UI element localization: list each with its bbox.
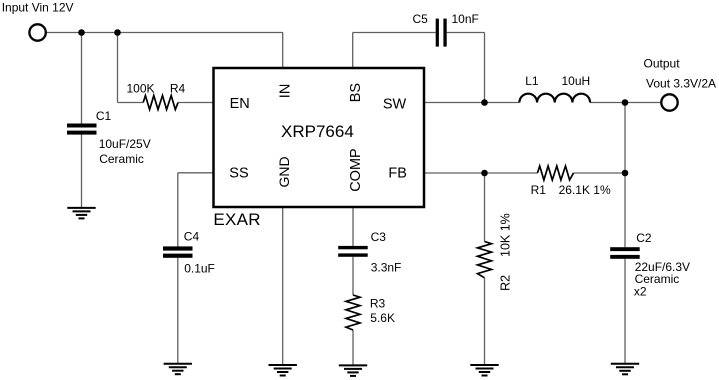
svg-text:100K: 100K — [127, 82, 155, 96]
svg-text:R1: R1 — [531, 183, 547, 197]
svg-text:C3: C3 — [371, 230, 387, 244]
ground R3 — [339, 365, 367, 376]
ground C1 — [67, 208, 95, 219]
wire C1 branch top — [81, 33, 83, 124]
op-amp U1 XRP7664 box — [214, 68, 425, 207]
resistor R1 — [538, 166, 574, 180]
svg-text:5.6K: 5.6K — [370, 311, 395, 325]
capacitor C3 — [338, 246, 368, 257]
input terminal — [29, 24, 45, 40]
svg-text:10K 1%: 10K 1% — [498, 213, 512, 257]
inductor L1 — [519, 94, 590, 103]
svg-text:10uF/25V: 10uF/25V — [99, 137, 151, 151]
capacitor C5 — [436, 19, 447, 47]
svg-text:EXAR: EXAR — [213, 210, 261, 229]
svg-text:10nF: 10nF — [452, 12, 479, 26]
svg-text:FB: FB — [388, 165, 407, 181]
svg-text:IN: IN — [277, 84, 293, 99]
wire COMP to C3 — [352, 207, 354, 246]
svg-text:Vout 3.3V/2A: Vout 3.3V/2A — [646, 76, 716, 90]
wire BS to C5 — [353, 32, 436, 34]
ground C2 — [611, 364, 639, 375]
capacitor C2 — [610, 247, 640, 259]
wire L1 to output — [590, 102, 661, 104]
svg-text:C4: C4 — [184, 229, 200, 243]
svg-text:10uH: 10uH — [562, 74, 591, 88]
svg-text:R4: R4 — [170, 81, 186, 95]
wire C4 to ground — [177, 258, 179, 364]
wire R2 to ground — [484, 278, 486, 365]
wire R2 branch top — [484, 173, 486, 242]
wire C3 to R3 — [352, 257, 354, 295]
wire R4 branch drop — [117, 33, 119, 103]
svg-text:Ceramic: Ceramic — [99, 152, 144, 166]
wire Vin rail — [47, 32, 284, 34]
node junction R4 — [114, 29, 121, 36]
svg-text:Input Vin 12V: Input Vin 12V — [2, 1, 74, 15]
ground C4 — [164, 364, 192, 375]
wire SS to C4 — [177, 173, 179, 247]
svg-text:EN: EN — [230, 96, 250, 112]
ground R2 — [470, 365, 498, 376]
svg-text:R3: R3 — [370, 297, 386, 311]
svg-text:COMP: COMP — [348, 148, 364, 192]
svg-text:R2: R2 — [498, 275, 512, 291]
wire C5 to corner — [447, 32, 485, 34]
svg-text:BS: BS — [348, 83, 364, 102]
wire C5 drop to SW node — [484, 33, 486, 103]
svg-text:x2: x2 — [634, 284, 647, 298]
svg-text:SW: SW — [383, 96, 407, 112]
node junction C1 — [78, 29, 85, 36]
capacitor C1 — [67, 124, 97, 135]
wire R4 right lead to EN — [178, 102, 213, 104]
wire C1 to ground — [81, 135, 83, 208]
wire BS riser — [352, 33, 354, 69]
wire C2 to ground — [624, 259, 626, 364]
wire SW line left of L1 — [424, 102, 519, 104]
resistor R4 — [143, 96, 178, 110]
capacitor C4 — [163, 246, 193, 257]
resistor R3 — [346, 295, 360, 330]
svg-text:L1: L1 — [525, 74, 539, 88]
node junction FB-R2 — [481, 170, 488, 177]
svg-text:26.1K 1%: 26.1K 1% — [559, 183, 611, 197]
wire R4 left lead — [118, 102, 144, 104]
svg-text:3.3nF: 3.3nF — [371, 260, 402, 274]
svg-text:Output: Output — [644, 57, 681, 71]
wire node SW to FB node vertical — [624, 103, 626, 174]
ground GND pin — [269, 365, 297, 376]
wire SS lead — [178, 172, 214, 174]
svg-text:C2: C2 — [636, 231, 652, 245]
wire R3 to ground — [352, 330, 354, 365]
svg-text:0.1uF: 0.1uF — [184, 262, 215, 276]
wire GND pin to ground — [282, 207, 284, 365]
svg-text:GND: GND — [276, 156, 292, 187]
output terminal — [661, 94, 677, 110]
svg-text:C1: C1 — [96, 109, 112, 123]
node junction SW-C5 — [481, 99, 488, 106]
svg-text:C5: C5 — [413, 12, 429, 26]
wire R1 right lead — [574, 172, 626, 174]
wire FB line — [424, 172, 538, 174]
resistor R2 — [478, 242, 492, 278]
node junction SW-out — [622, 99, 629, 106]
svg-text:XRP7664: XRP7664 — [281, 122, 354, 141]
svg-text:SS: SS — [229, 165, 248, 181]
node junction FB-C2 — [622, 170, 629, 177]
wire IN drop — [282, 33, 284, 69]
wire C2 branch top — [624, 173, 626, 247]
